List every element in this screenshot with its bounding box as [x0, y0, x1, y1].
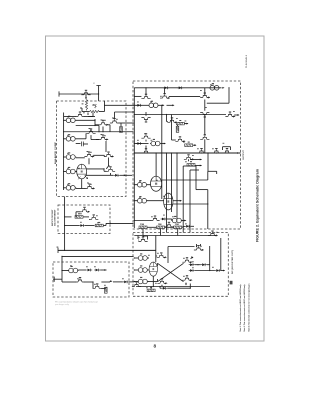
- svg-text:8: 8: [153, 344, 156, 350]
- svg-text:FIGURE 2. Equivalent Schematic: FIGURE 2. Equivalent Schematic Diagram: [256, 169, 260, 242]
- svg-text:Note 1: This connection made o: Note 1: This connection made on LM207 an…: [239, 284, 242, 332]
- svg-text:OUTPUT: OUTPUT: [243, 149, 245, 160]
- svg-text:Note 2: This connection made o: Note 2: This connection made on LM217 an…: [243, 284, 246, 332]
- svg-text:BALANCE COMP: BALANCE COMP: [54, 141, 57, 164]
- svg-text:NC (BOOSTER OUT): NC (BOOSTER OUT): [232, 250, 234, 274]
- svg-text:Note 3: No internal connection: Note 3: No internal connection to V on m…: [247, 283, 250, 332]
- svg-text:Pin connections shown are for: Pin connections shown are for metal can: [55, 301, 98, 304]
- svg-text:TL/H/5645-2: TL/H/5645-2: [245, 54, 248, 68]
- svg-text:package only: package only: [55, 304, 69, 306]
- svg-text:ADJUSTMENT: ADJUSTMENT: [54, 209, 57, 226]
